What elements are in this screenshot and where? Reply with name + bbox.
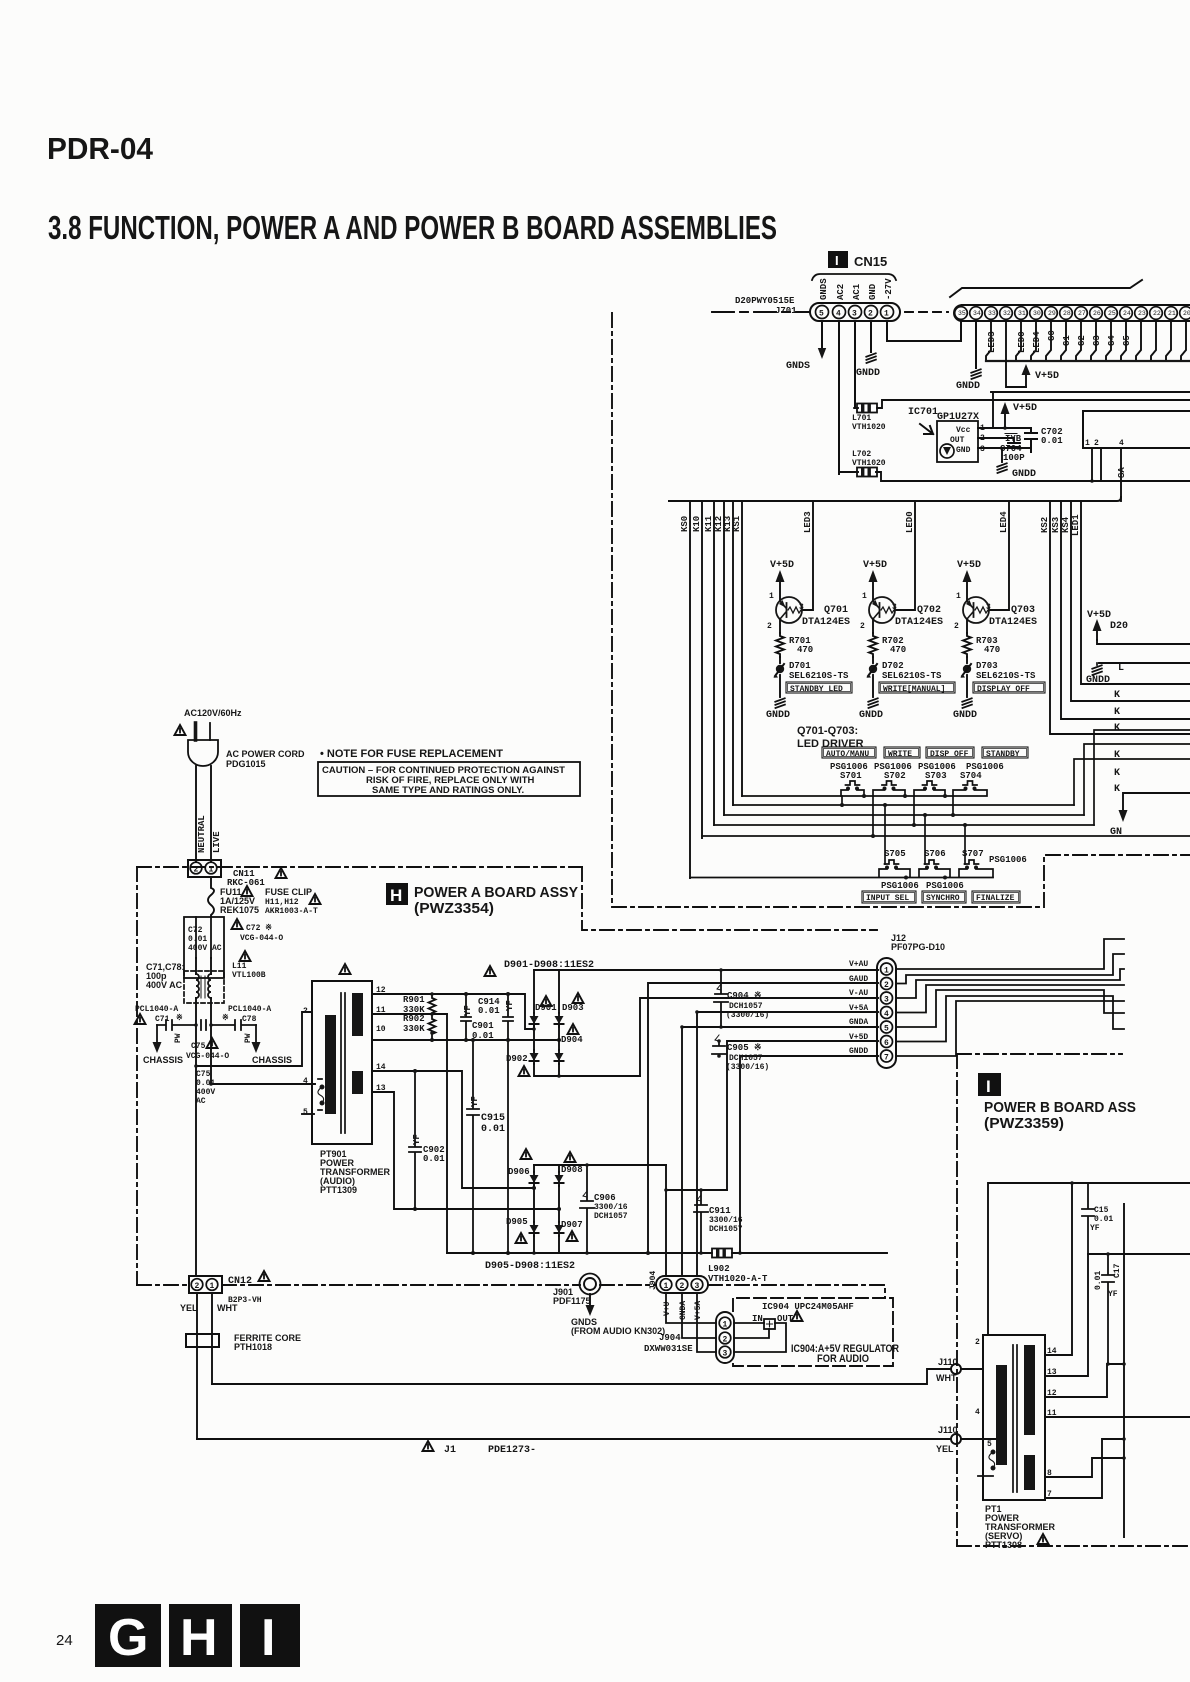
svg-text:GND: GND (956, 446, 971, 455)
capacitor C914 (503, 994, 513, 1253)
resistor R902 (429, 1014, 436, 1040)
svg-text:D701: D701 (789, 661, 811, 671)
svg-text:4: 4 (975, 1408, 980, 1417)
svg-text:INPUT SEL: INPUT SEL (866, 894, 909, 903)
svg-text:6: 6 (884, 1039, 889, 1048)
gnd GNDD right (1096, 663, 1098, 665)
svg-text:S704: S704 (960, 771, 982, 781)
svg-text:LED1: LED1 (1071, 514, 1081, 536)
svg-text:GNDD: GNDD (766, 710, 790, 721)
svg-text:3300/16: 3300/16 (594, 1203, 628, 1212)
wire Q701 emitter down (779, 619, 781, 633)
svg-text:GNDA: GNDA (849, 1018, 868, 1027)
svg-text:3: 3 (695, 1282, 700, 1291)
fuse FU11 (208, 877, 214, 917)
svg-text:OUT: OUT (950, 436, 965, 445)
bus drop LED0 (895, 501, 915, 610)
svg-text:LED3: LED3 (803, 511, 813, 533)
svg-text:1: 1 (884, 967, 889, 976)
pin 5 GNDA (881, 1021, 893, 1033)
svg-text:2: 2 (767, 622, 772, 631)
switch S705 (885, 860, 899, 864)
svg-text:AC120V/60Hz: AC120V/60Hz (184, 708, 242, 718)
svg-text:0.01: 0.01 (423, 1154, 445, 1164)
svg-text:AC2: AC2 (836, 284, 846, 300)
svg-text:K: K (1114, 723, 1120, 734)
matrix row line KS1 (742, 795, 953, 797)
svg-text:K: K (1114, 784, 1120, 795)
label box DISPLAY OFF (973, 682, 1045, 693)
svg-text:SEL6210S-TS: SEL6210S-TS (882, 671, 942, 681)
svg-text:KS3: KS3 (1051, 517, 1061, 533)
wire L702 to lower rail (876, 472, 1190, 481)
svg-text:23: 23 (1138, 310, 1146, 317)
op-amp U IC701 body (937, 421, 978, 462)
choke L11 box (184, 971, 224, 1003)
svg-text:SAME TYPE AND RATINGS ONLY.: SAME TYPE AND RATINGS ONLY. (372, 785, 524, 796)
svg-text:PCL1040-A: PCL1040-A (228, 1005, 271, 1014)
svg-text:1: 1 (769, 592, 774, 601)
svg-text:V+5A: V+5A (849, 1004, 868, 1013)
svg-text:C78: C78 (242, 1015, 257, 1024)
svg-text:1: 1 (210, 1282, 215, 1291)
pin 5 GNDS (816, 306, 829, 319)
switch loop S707 (959, 869, 993, 877)
gnd bracket right (1123, 793, 1190, 814)
IC904 dashed box (733, 1298, 893, 1366)
switch loop S704 (953, 790, 987, 796)
capacitor C901 (461, 994, 471, 1040)
wires CN12 down (197, 1293, 212, 1439)
wire riser S706 (924, 815, 926, 864)
svg-text:AUTO/MANU: AUTO/MANU (826, 750, 869, 759)
svg-text:H: H (180, 1609, 218, 1667)
capacitor C15 (1082, 1183, 1094, 1254)
svg-text:G5: G5 (1122, 335, 1132, 346)
LED D701 (774, 664, 785, 678)
svg-text:V+U: V+U (663, 1301, 672, 1316)
svg-text:21: 21 (1168, 310, 1176, 317)
svg-text:K: K (1114, 768, 1120, 779)
wire riser S707 (964, 825, 966, 864)
svg-text:C915: C915 (481, 1113, 505, 1124)
svg-text:GNDD: GNDD (1086, 675, 1110, 686)
board A border top step (582, 867, 877, 930)
capacitor C71 (157, 1020, 196, 1030)
svg-text:PTH1018: PTH1018 (234, 1342, 272, 1352)
capacitor C702 (1025, 428, 1037, 452)
board A border top (137, 866, 582, 868)
caution box (318, 762, 580, 796)
capacitor C905 (712, 1041, 726, 1056)
svg-text:YF: YF (463, 1005, 473, 1016)
svg-text:LIVE: LIVE (212, 831, 222, 853)
svg-text:C15: C15 (1094, 1206, 1109, 1215)
svg-text:3: 3 (986, 603, 991, 612)
svg-text:SA: SA (1117, 467, 1127, 478)
chassis gnd left (156, 1025, 158, 1042)
gnd GNDD IC701 (1001, 448, 1003, 462)
thermal protector inside PT1 (991, 1450, 996, 1455)
svg-text:REK1075: REK1075 (220, 905, 259, 915)
choke L11 coils (196, 974, 199, 998)
svg-text:3: 3 (884, 996, 889, 1005)
board B border left (956, 1054, 958, 1546)
svg-text:30: 30 (1033, 310, 1041, 317)
svg-text:R902: R902 (403, 1014, 425, 1024)
regulator wires (734, 1322, 764, 1324)
svg-text:STANDBY LED: STANDBY LED (790, 685, 843, 694)
svg-text:C17: C17 (1113, 1263, 1122, 1278)
right bus vertical (1123, 1204, 1125, 1537)
svg-text:YF: YF (470, 1096, 480, 1107)
inductor L702 (854, 468, 880, 477)
svg-text:DISP OFF: DISP OFF (930, 750, 969, 759)
pin 2 GND (865, 306, 878, 319)
svg-text:DCH1057: DCH1057 (709, 1225, 743, 1234)
svg-text:V+5D: V+5D (770, 560, 794, 571)
svg-text:KS2: KS2 (1040, 517, 1050, 533)
marker H POWER A BOARD ASSY (386, 883, 408, 905)
diode D904 (558, 1025, 560, 1050)
svg-text:PDE1273-: PDE1273- (488, 1445, 536, 1456)
label box WRITE (884, 747, 920, 758)
connector J904 vertical (716, 1312, 734, 1363)
svg-text:PW: PW (244, 1033, 253, 1043)
svg-text:GNDD: GNDD (856, 368, 880, 379)
svg-text:GNDD: GNDD (956, 381, 980, 392)
ferrite core (186, 1334, 219, 1347)
capacitor C915 (467, 1040, 479, 1253)
riser V-AU (640, 998, 878, 1076)
svg-text:400V AC: 400V AC (146, 980, 183, 990)
connector J901 (580, 1274, 601, 1295)
pin 6 V+5D (881, 1036, 893, 1048)
svg-text:3: 3 (980, 445, 985, 454)
photodiode inside IC701 (940, 444, 954, 458)
capacitor C704 (1008, 440, 1020, 448)
wires connector pins down (1091, 448, 1093, 481)
FL pin numbers (958, 310, 1190, 317)
svg-text:2: 2 (884, 981, 889, 990)
board B border top (957, 1053, 1122, 1055)
svg-text:G0: G0 (1047, 330, 1057, 341)
svg-text:YF: YF (412, 1134, 422, 1145)
svg-text:FINALIZE: FINALIZE (976, 894, 1015, 903)
bus drop KS3 (1061, 501, 1190, 719)
svg-text:7: 7 (884, 1054, 889, 1063)
footer block H (169, 1604, 232, 1667)
svg-text:C901: C901 (472, 1021, 494, 1031)
svg-text:3.8 FUNCTION, POWER A AND POWE: 3.8 FUNCTION, POWER A AND POWER B BOARD … (48, 209, 777, 246)
svg-text:K: K (1114, 707, 1120, 718)
svg-text:G1: G1 (1062, 335, 1072, 346)
svg-text:3: 3 (799, 603, 804, 612)
svg-text:LED0: LED0 (1017, 331, 1027, 353)
ground bus audio (447, 1252, 887, 1254)
rectifier rail top V+AU (534, 969, 878, 971)
svg-text:2: 2 (954, 622, 959, 631)
svg-text:POWER A BOARD ASSY: POWER A BOARD ASSY (414, 884, 578, 901)
rectifier2 bottoms to bus (534, 1236, 559, 1253)
junction dots row KS0 (904, 876, 908, 880)
svg-text:34: 34 (973, 310, 981, 317)
label box FINALIZE (972, 891, 1020, 903)
svg-text:1: 1 (723, 1321, 728, 1330)
resistor R702 470 (869, 633, 877, 657)
svg-text:GNDD: GNDD (859, 710, 883, 721)
svg-text:PTT1308: PTT1308 (985, 1540, 1022, 1550)
svg-text:GND: GND (868, 283, 878, 300)
board border bottom (612, 855, 1190, 907)
svg-text:S703: S703 (925, 771, 947, 781)
wire PT901 pin2 to neutral (196, 1012, 312, 1066)
svg-text:Q701: Q701 (824, 605, 848, 616)
board B border bottom (957, 1545, 1190, 1547)
svg-text:AC: AC (196, 1097, 206, 1106)
svg-text:IC701: IC701 (908, 407, 938, 418)
svg-text:I: I (261, 1609, 275, 1667)
svg-text:C905 ※: C905 ※ (727, 1043, 762, 1053)
svg-text:J904: J904 (659, 1333, 681, 1343)
J12 output wires stair (896, 939, 1124, 1056)
svg-text:DTA124ES: DTA124ES (989, 617, 1037, 628)
svg-text:IC904 UPC24M05AHF: IC904 UPC24M05AHF (762, 1302, 854, 1312)
gnd GNDD Q703 (966, 675, 968, 697)
svg-text:LED0: LED0 (905, 511, 915, 533)
junction dots row KS1 (862, 794, 866, 798)
svg-text:VTH1020-A-T: VTH1020-A-T (708, 1274, 768, 1284)
svg-text:(3300/16): (3300/16) (726, 1063, 769, 1072)
svg-text:(3300/16): (3300/16) (726, 1011, 769, 1020)
svg-text:D905: D905 (506, 1217, 528, 1227)
riser GNDD (740, 1056, 878, 1253)
svg-text:25: 25 (1108, 310, 1116, 317)
svg-text:GNDS: GNDS (819, 278, 829, 300)
svg-text:1: 1 (1085, 439, 1090, 448)
IR arrow into IC701 (920, 424, 933, 434)
svg-text:D906: D906 (508, 1167, 530, 1177)
wire pin1 -27V to FL connector pin 1 (887, 321, 961, 341)
svg-text:SYNCHRO: SYNCHRO (926, 894, 960, 903)
svg-text:K11: K11 (704, 515, 714, 532)
svg-text:DISPLAY OFF: DISPLAY OFF (977, 685, 1030, 694)
svg-text:DCH1057: DCH1057 (594, 1212, 628, 1221)
svg-text:2: 2 (303, 1007, 308, 1016)
svg-text:D904: D904 (561, 1035, 583, 1045)
switch drop S704 to K12 (952, 796, 954, 815)
svg-text:L11: L11 (232, 962, 247, 971)
switch S702 (882, 781, 896, 785)
label box SYNCHRO (922, 891, 966, 903)
svg-text:C71: C71 (155, 1015, 170, 1024)
wire PT901 pin4 to live (211, 1083, 315, 1085)
matrix row line K13 (733, 804, 1074, 806)
marker I POWER B BOARD ASSY (978, 1073, 1001, 1096)
svg-text:PSG1006: PSG1006 (926, 881, 964, 891)
board A border left (136, 867, 138, 1285)
svg-text:I: I (986, 1077, 991, 1096)
wires through L11 (196, 958, 211, 1276)
inductor L701 (854, 404, 880, 413)
pin 4 AC2 (833, 306, 846, 319)
svg-text:CHASSIS: CHASSIS (252, 1055, 292, 1065)
svg-text:VCG-044-O: VCG-044-O (186, 1052, 229, 1061)
svg-text:STANDBY: STANDBY (986, 750, 1020, 759)
AC plug (194, 723, 198, 740)
svg-text:G4: G4 (1107, 335, 1117, 346)
bracket wing over FL connector (950, 280, 1142, 297)
main bus line (669, 497, 1121, 501)
svg-text:GNDD: GNDD (953, 710, 977, 721)
svg-text:DTA124ES: DTA124ES (802, 617, 850, 628)
svg-text:5: 5 (987, 1440, 992, 1449)
FL bus line (986, 360, 1190, 362)
FL pin drop wires to bus (986, 321, 1186, 361)
diode D903 (558, 970, 560, 1013)
svg-text:C75: C75 (196, 1070, 211, 1079)
bus drop K13 (732, 501, 734, 805)
svg-text:470: 470 (890, 645, 906, 655)
svg-text:D902: D902 (506, 1054, 528, 1064)
matrix row riser right 1 (1074, 759, 1190, 805)
svg-text:L902: L902 (708, 1264, 730, 1274)
riser V+5A (697, 1011, 878, 1013)
svg-text:V+5D: V+5D (1087, 610, 1111, 621)
svg-text:0.01: 0.01 (478, 1006, 500, 1016)
svg-text:3: 3 (723, 1350, 728, 1359)
svg-text:DTA124ES: DTA124ES (895, 617, 943, 628)
svg-text:D907: D907 (561, 1220, 583, 1230)
svg-text:2: 2 (860, 622, 865, 631)
matrix row line K10 (702, 835, 1190, 837)
marker I CN15 (828, 251, 848, 268)
svg-text:YEL: YEL (936, 1444, 954, 1454)
label box WRITE[MANUAL] (879, 682, 955, 693)
svg-text:V+5D: V+5D (957, 560, 981, 571)
bus drop KS2 (1050, 501, 1190, 734)
switch loop S701 (841, 790, 864, 796)
svg-text:2: 2 (680, 1282, 685, 1291)
svg-text:C906: C906 (594, 1193, 616, 1203)
switch drop S703 to K11 (913, 796, 915, 825)
svg-text:330K: 330K (403, 1024, 425, 1034)
chassis gnd right (255, 1025, 257, 1042)
svg-text:31: 31 (1018, 310, 1026, 317)
svg-text:4: 4 (836, 310, 841, 319)
capacitor C902 (409, 1071, 421, 1209)
svg-text:C911: C911 (709, 1206, 731, 1216)
svg-text:D908: D908 (561, 1165, 583, 1175)
switch drop S702 to K10 (872, 796, 874, 836)
label box AUTO/MANU (822, 747, 876, 758)
svg-text:AC POWER CORD: AC POWER CORD (226, 749, 305, 759)
svg-text:KS4: KS4 (1061, 516, 1071, 533)
svg-text:G: G (108, 1609, 148, 1667)
transistor Q703 (963, 597, 989, 623)
diode D906 (533, 1165, 535, 1172)
svg-text:1: 1 (862, 592, 867, 601)
bus drop KS0 (689, 501, 691, 878)
svg-text:VTH1020: VTH1020 (852, 459, 886, 468)
svg-text:2: 2 (195, 1282, 200, 1291)
svg-text:33: 33 (988, 310, 996, 317)
svg-text:R901: R901 (403, 995, 425, 1005)
matrix row riser right 2 (1084, 744, 1190, 815)
svg-text:Q701-Q703:: Q701-Q703: (797, 725, 858, 737)
svg-text:100P: 100P (1003, 453, 1025, 463)
svg-text:S702: S702 (884, 771, 906, 781)
svg-text:1: 1 (664, 1282, 669, 1291)
wire Q703 emitter down (966, 619, 968, 633)
switch drop S701 to K13 (841, 796, 843, 805)
wire Q702 emitter down (872, 619, 874, 633)
svg-text:V+5D: V+5D (1013, 403, 1037, 414)
matrix row line KS0 (690, 877, 993, 879)
svg-text:V+5A: V+5A (694, 1301, 703, 1320)
svg-text:400V AC: 400V AC (188, 944, 222, 953)
supply arrow V+5D IC701 (1004, 412, 1006, 428)
svg-text:(PWZ3354): (PWZ3354) (414, 900, 494, 917)
svg-text:D702: D702 (882, 661, 904, 671)
inductor L902 (709, 1249, 735, 1258)
warning triangle plug (175, 725, 186, 735)
svg-text:POWER B BOARD ASS: POWER B BOARD ASS (984, 1099, 1136, 1116)
svg-text:※: ※ (176, 1013, 183, 1023)
riser V+5D (727, 1041, 878, 1190)
svg-text:D901: D901 (535, 1003, 557, 1013)
wire J701 left to edge (712, 311, 810, 313)
pin 2 GAUD (881, 978, 893, 990)
svg-text:-27V: -27V (884, 278, 894, 300)
bus drop K11 (713, 501, 715, 825)
svg-text:WRITE: WRITE (888, 750, 912, 759)
svg-text:LED3: LED3 (987, 331, 997, 353)
label box STANDBY LED (786, 682, 852, 693)
wire live (210, 766, 212, 861)
svg-text:V+5D: V+5D (1035, 371, 1059, 382)
wire PT901 pin5 stub (302, 1113, 314, 1115)
switch S703 (923, 781, 937, 785)
transformer PT1 (983, 1335, 1045, 1500)
svg-text:K: K (1114, 690, 1120, 701)
connector SA box top right (1083, 411, 1190, 448)
svg-text:Q703: Q703 (1011, 605, 1035, 616)
svg-text:1: 1 (956, 592, 961, 601)
svg-text:PW: PW (174, 1033, 183, 1043)
svg-text:3300/16: 3300/16 (709, 1216, 743, 1225)
svg-text:0.01: 0.01 (1041, 436, 1063, 446)
GNDS arrow from pin 5 (818, 341, 826, 359)
matrix row riser right 3 (1094, 730, 1190, 825)
svg-text:※: ※ (222, 1013, 229, 1023)
connector CN12 (189, 1276, 222, 1293)
wire R703 to LED (966, 657, 968, 663)
svg-text:27: 27 (1078, 310, 1086, 317)
wire C15 bottom rail (1088, 1253, 1190, 1255)
svg-text:PSG1006: PSG1006 (989, 855, 1027, 865)
pin 7 GNDD (881, 1050, 893, 1062)
pin 1 -27V (881, 306, 894, 319)
svg-text:400V: 400V (196, 1088, 215, 1097)
svg-text:2: 2 (1094, 439, 1099, 448)
svg-text:WRITE[MANUAL]: WRITE[MANUAL] (883, 685, 945, 694)
svg-text:35: 35 (958, 310, 966, 317)
V+U riser (665, 1165, 667, 1276)
svg-text:L702: L702 (852, 450, 871, 459)
svg-text:PDF1175: PDF1175 (553, 1296, 591, 1306)
wires J904 pins down to regulator (666, 1293, 716, 1323)
